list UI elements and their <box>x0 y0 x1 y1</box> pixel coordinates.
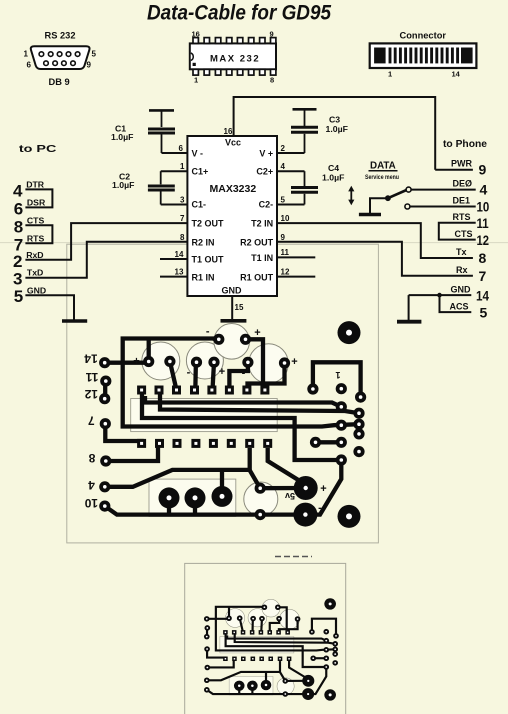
svg-text:Rx: Rx <box>456 265 468 275</box>
svg-text:14: 14 <box>84 351 98 365</box>
svg-text:Connector: Connector <box>400 31 447 41</box>
svg-text:DATA: DATA <box>370 161 396 172</box>
svg-text:GND: GND <box>451 284 472 294</box>
capacitor C4 <box>291 171 318 204</box>
wire TxD to R2IN pin 8 <box>25 242 187 278</box>
faint pasted image box (big PCB) <box>67 244 379 543</box>
DB9 connector body <box>31 46 90 69</box>
svg-text:8: 8 <box>479 250 487 266</box>
faint pasted image box (small PCB) <box>185 563 346 714</box>
svg-text:12: 12 <box>477 232 490 248</box>
node DE0 <box>411 189 475 191</box>
svg-text:14: 14 <box>452 70 461 79</box>
svg-text:C2+: C2+ <box>256 167 273 177</box>
svg-text:14: 14 <box>476 288 489 304</box>
svg-text:to PC: to PC <box>19 144 57 155</box>
svg-text:Service menu: Service menu <box>365 174 399 181</box>
svg-text:9: 9 <box>281 233 286 242</box>
MAX232 DIP body <box>190 43 276 69</box>
svg-text:DEØ: DEØ <box>453 178 473 188</box>
svg-text:1: 1 <box>388 70 392 79</box>
svg-text:DSR: DSR <box>27 198 46 208</box>
switch SW1 <box>359 213 381 217</box>
svg-text:+: + <box>320 483 326 495</box>
svg-text:4: 4 <box>281 162 286 171</box>
wire T2IN pin10 to Tx <box>277 223 473 258</box>
svg-text:RTS: RTS <box>453 212 471 222</box>
svg-text:11: 11 <box>85 370 98 384</box>
svg-text:+: + <box>219 366 225 378</box>
svg-text:8: 8 <box>88 451 95 465</box>
svg-text:GND: GND <box>27 285 46 295</box>
wire C2 to pin 1 <box>161 170 188 172</box>
svg-text:10: 10 <box>281 214 290 223</box>
svg-text:-: - <box>242 367 246 379</box>
svg-text:V -: V - <box>192 149 204 159</box>
MAX232 DIP notch <box>191 53 193 60</box>
svg-text:6: 6 <box>14 200 23 219</box>
pin 14 stub <box>160 258 187 260</box>
svg-text:4: 4 <box>88 478 95 492</box>
faint scan stripe <box>0 242 508 244</box>
svg-text:6: 6 <box>179 144 184 153</box>
svg-text:15: 15 <box>235 303 244 312</box>
svg-text:CTS: CTS <box>455 229 473 239</box>
svg-text:1: 1 <box>180 162 185 171</box>
wire R2OUT pin9 to Rx <box>277 242 473 276</box>
svg-text:DB 9: DB 9 <box>49 77 70 87</box>
svg-text:1: 1 <box>194 76 198 85</box>
svg-text:10: 10 <box>84 496 98 510</box>
svg-text:to Phone: to Phone <box>443 139 487 150</box>
svg-text:3: 3 <box>180 196 185 205</box>
ground (pin 15) <box>221 319 247 323</box>
svg-text:4: 4 <box>13 182 23 201</box>
svg-text:R1 IN: R1 IN <box>192 273 215 283</box>
svg-text:T2 OUT: T2 OUT <box>192 219 225 229</box>
MAX232 DIP pin1 dot <box>193 63 196 66</box>
node PWR <box>435 169 473 171</box>
svg-text:1.0µF: 1.0µF <box>112 180 134 190</box>
svg-text:C4: C4 <box>328 163 339 173</box>
svg-text:10: 10 <box>477 199 490 215</box>
svg-text:13: 13 <box>175 267 184 276</box>
svg-text:5: 5 <box>281 196 286 205</box>
svg-text:C1+: C1+ <box>192 167 209 177</box>
svg-text:14: 14 <box>175 250 184 259</box>
Connector right block <box>461 48 473 64</box>
svg-text:C2-: C2- <box>259 200 274 210</box>
svg-text:+: + <box>133 356 139 368</box>
node ACS <box>440 295 472 312</box>
Connector left block <box>374 48 386 64</box>
wire CTS-RTS jumper <box>25 225 52 243</box>
svg-text:RxD: RxD <box>26 250 43 260</box>
svg-text:16: 16 <box>192 30 200 39</box>
wire GND (PC) <box>25 295 74 319</box>
svg-text:T1 IN: T1 IN <box>251 253 273 263</box>
svg-text:+: + <box>254 327 260 339</box>
wire C2 to pin 3 <box>161 204 188 206</box>
svg-text:MAX 232: MAX 232 <box>210 54 260 65</box>
svg-text:ACS: ACS <box>450 301 469 311</box>
MAX232 DIP top pins <box>193 38 276 44</box>
PCB component side artwork <box>99 321 366 528</box>
wire C4 to pin 5 <box>277 204 305 206</box>
svg-text:T1 OUT: T1 OUT <box>192 254 225 264</box>
svg-text:-: - <box>187 367 191 379</box>
Connector contact bars <box>390 48 458 64</box>
pin 11 stub <box>277 256 315 258</box>
svg-text:C1-: C1- <box>192 200 207 210</box>
MAX232 DIP bottom pins <box>193 69 276 75</box>
svg-text:5: 5 <box>480 304 488 320</box>
node RTS (phone) <box>439 223 476 240</box>
svg-text:1.0µF: 1.0µF <box>111 132 133 142</box>
ground (phone side) <box>397 320 421 324</box>
node GND (phone) <box>409 294 472 296</box>
svg-text:1.0µF: 1.0µF <box>322 173 344 183</box>
node DE1 <box>410 206 476 208</box>
svg-text:5v: 5v <box>285 491 295 501</box>
wire C4 to pin 4 <box>277 170 305 172</box>
svg-text:8: 8 <box>180 233 185 242</box>
svg-text:7: 7 <box>88 413 95 427</box>
capacitor C3 <box>291 109 318 153</box>
svg-text:7: 7 <box>180 214 185 223</box>
svg-text:2: 2 <box>281 144 286 153</box>
svg-text:CTS: CTS <box>27 215 45 225</box>
svg-text:TxD: TxD <box>27 268 43 278</box>
svg-text:2: 2 <box>13 252 22 271</box>
svg-text:R2 OUT: R2 OUT <box>240 237 274 247</box>
wire DTR <box>25 189 52 207</box>
pin 12 stub <box>277 276 315 278</box>
wire GND phone down <box>408 295 410 320</box>
svg-text:+: + <box>291 356 297 368</box>
svg-text:Data-Cable for GD95: Data-Cable for GD95 <box>147 2 331 25</box>
capacitor C2 <box>148 171 175 204</box>
svg-text:8: 8 <box>270 76 274 85</box>
svg-text:16: 16 <box>224 127 233 136</box>
wire Vcc top rail <box>234 97 436 170</box>
svg-text:11: 11 <box>477 215 489 231</box>
up-down arrow <box>348 186 354 205</box>
svg-text:11: 11 <box>281 248 290 257</box>
svg-text:DTR: DTR <box>26 180 45 190</box>
svg-text:6: 6 <box>27 61 32 70</box>
svg-text:Vcc: Vcc <box>225 138 241 148</box>
svg-text:5: 5 <box>14 287 23 306</box>
svg-text:9: 9 <box>87 61 92 70</box>
svg-text:1: 1 <box>24 50 29 59</box>
svg-text:9: 9 <box>270 30 274 39</box>
svg-text:RS 232: RS 232 <box>45 31 76 41</box>
Connector body <box>370 43 477 68</box>
svg-text:12: 12 <box>84 387 98 401</box>
capacitor C1 <box>148 110 175 153</box>
svg-text:7: 7 <box>479 268 487 284</box>
svg-text:-: - <box>318 502 322 514</box>
pin 13 stub <box>160 276 187 278</box>
svg-text:Tx: Tx <box>456 247 467 257</box>
ground (PC side) <box>62 319 87 323</box>
svg-text:-: - <box>206 326 210 338</box>
svg-text:1.0µF: 1.0µF <box>326 124 348 134</box>
svg-text:8: 8 <box>14 218 23 237</box>
PCB polarity signs <box>133 326 326 515</box>
DB9 pin holes row 2 <box>44 61 76 66</box>
svg-text:4: 4 <box>480 182 488 198</box>
svg-text:MAX3232: MAX3232 <box>210 183 257 195</box>
pin 15 GND wire <box>231 296 233 320</box>
wire C3 to pin 2 <box>277 152 305 154</box>
wire RxD to T2OUT pin 7 <box>25 223 187 260</box>
svg-text:GND: GND <box>222 286 243 296</box>
svg-text:12: 12 <box>281 267 290 276</box>
svg-text:V +: V + <box>259 149 273 159</box>
svg-text:R2 IN: R2 IN <box>192 237 215 247</box>
svg-text:3: 3 <box>13 270 22 289</box>
svg-text:PWR: PWR <box>451 159 472 169</box>
svg-text:5: 5 <box>92 50 97 59</box>
svg-text:DE1: DE1 <box>453 196 471 206</box>
wire C1 to pin 6 <box>162 152 188 154</box>
svg-text:9: 9 <box>479 162 487 178</box>
svg-text:RTS: RTS <box>27 233 45 243</box>
svg-text:R1 OUT: R1 OUT <box>240 273 274 283</box>
dark mark above small PCB box <box>275 556 312 558</box>
svg-text:1: 1 <box>335 370 340 380</box>
svg-text:C3: C3 <box>329 115 340 125</box>
PCB solder side artwork (small copy) <box>204 598 339 700</box>
DB9 pin holes row 1 <box>39 52 80 57</box>
svg-text:T2 IN: T2 IN <box>251 219 273 229</box>
op-amp U1 MAX3232 IC box <box>187 136 277 296</box>
